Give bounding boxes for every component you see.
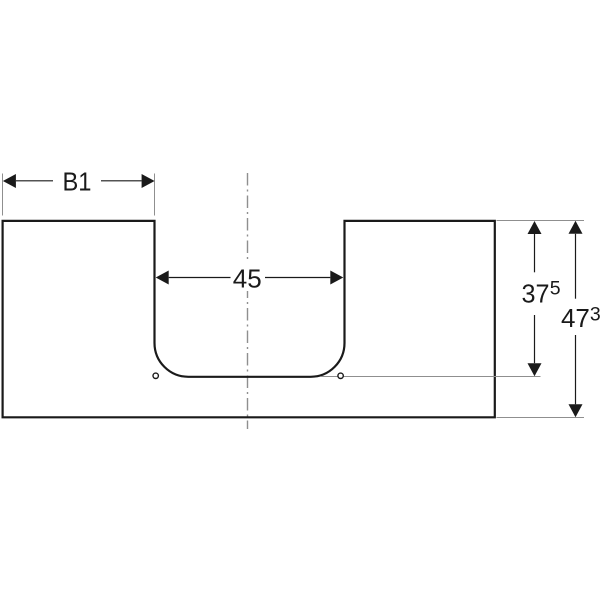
extension line bottom right (worktop bottom edge) [497,417,585,419]
svg-text:47: 47 [561,303,590,333]
dimension 47.3 arrow bottom [569,404,583,417]
dimension 37.5 arrow bottom [528,363,542,376]
dimension 37.5 line upper segment [534,234,536,272]
svg-text:37: 37 [522,279,550,309]
dimension B1 line right segment [101,180,142,182]
dimension B1 arrow right [142,174,155,188]
dimension B1 arrow left [3,174,16,188]
dimension 45 line right segment [265,277,330,279]
dimension 47.3 arrow top [569,221,583,234]
dimension 47.3 line lower segment [575,335,577,404]
white mask under 45 label [231,263,265,291]
extension line B1 right [154,174,156,216]
fixing hole left [153,373,158,378]
dimension B1 line left segment [16,180,53,182]
dimension 37.5 line lower segment [534,315,536,363]
fixing hole right [338,373,343,378]
worktop outline with U-shaped cutout [3,221,495,417]
dimension 45 line left segment [169,277,232,279]
dimension 45 arrow right [330,271,343,285]
svg-text:3: 3 [590,304,600,326]
dimension 47.3 line upper segment [575,234,577,299]
center line (vertical dash-dot axis) [247,173,249,429]
svg-text:B1: B1 [63,167,92,197]
svg-text:5: 5 [550,277,561,299]
extension line hole level [321,376,541,378]
dimension 45 arrow left [156,271,169,285]
dimension 37.5 arrow top [528,221,542,234]
extension line top right (worktop top edge) [497,220,585,222]
svg-text:45: 45 [233,264,262,294]
extension line B1 left [2,174,4,216]
